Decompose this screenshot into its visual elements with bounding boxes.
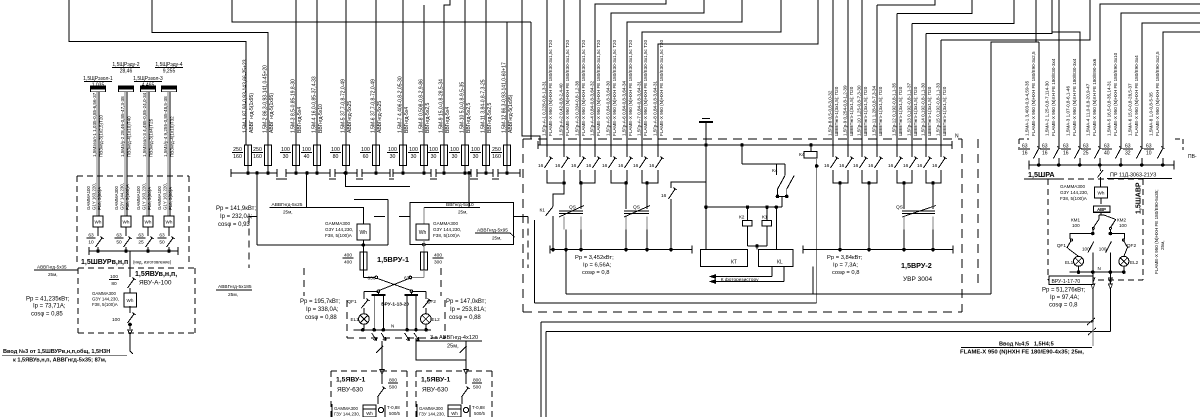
svg-text:GAMMA100: GAMMA100 [86,186,91,210]
svg-text:КТ: КТ [731,260,737,266]
svg-text:QS: QS [896,205,903,211]
svg-text:ШВВПнгз-1(3х1,5); П20: ШВВПнгз-1(3х1,5); П20 [942,86,947,136]
svg-text:32: 32 [1125,150,1131,156]
feeder 1,5Гр-А-5 with switch 16 [610,145,612,157]
svg-text:G3Y 144,230,: G3Y 144,230, [433,227,461,232]
svg-text:9,255: 9,255 [163,69,176,75]
svg-text:ВВГнгд-5х10: ВВГнгд-5х10 [318,104,324,133]
wire coils junction [748,245,768,247]
svg-text:ВРУ-1-13-20: ВРУ-1-13-20 [381,302,409,308]
svg-text:Рр = 51,276кВт;: Рр = 51,276кВт; [1042,288,1086,294]
svg-text:F16, 5(80)A: F16, 5(80)A [147,187,152,210]
svg-text:FLAME-X 950 (N)HXH FE 180/E30-: FLAME-X 950 (N)HXH FE 180/E30-3х1,5с Т20 [643,40,648,136]
wire supply bend to fuse column 1,5М-12 [232,0,507,145]
wire bend feeder Гр-А-4 [595,0,666,145]
svg-text:GAMMA300: GAMMA300 [433,221,458,226]
svg-text:16: 16 [649,163,655,169]
svg-text:1,5Мэзол-1 1,035-0,85-6,56-37: 1,5Мэзол-1 1,035-0,85-6,56-37 [92,92,97,157]
svg-text:30: 30 [390,154,396,160]
fuse 100/80 feeder 1,5М-5 [345,0,347,145]
svg-text:Wh: Wh [95,219,102,224]
bus N ВРУ-1 [354,329,431,331]
bus 1,5ВРУ-1 input busbar segments [231,172,277,174]
feeder 1,5Гр-15 with switch 16 [940,40,942,157]
feeder 1,5Гр-А-1 with switch 16 [546,0,548,145]
feeder 1,5Гр-А-4 with switch 16 [594,145,596,157]
boundary dashed line right [977,139,979,285]
svg-text:FLAME-X 950 (N)HXH FE 180/E30-: FLAME-X 950 (N)HXH FE 180/E30-3х1,5с Т20 [581,40,586,136]
fuse 100/30 feeder 1,5М-3 [295,0,297,145]
svg-text:1,5М-5 37,7-0,8-72,0-49: 1,5М-5 37,7-0,8-72,0-49 [341,79,347,133]
fuse 250/160 feeder 1,5М-2 [265,145,272,166]
bus N ВРУ-2 [538,144,952,146]
svg-text:Рр = 147,0кВт;: Рр = 147,0кВт; [446,299,486,305]
wire supply bend to fuse column 1,5М-1 [69,0,246,145]
wire meter 1 phase loop [256,173,258,245]
svg-text:Iр = 6,56А;: Iр = 6,56А; [583,263,612,269]
svg-text:16: 16 [903,163,909,169]
svg-text:Рр = 41,235кВт;: Рр = 41,235кВт; [26,297,70,303]
svg-text:F38, 5(100)A: F38, 5(100)A [325,233,353,238]
svg-text:1,5М-3 8,5-0,85-19,8-30: 1,5М-3 8,5-0,85-19,8-30 [291,79,297,133]
svg-text:1,5Гр-15 0,192-0,8-1,1-33: 1,5Гр-15 0,192-0,8-1,1-33 [936,83,941,136]
svg-text:16: 16 [932,163,938,169]
svg-text:25м,: 25м, [447,344,459,350]
svg-text:300: 300 [434,259,442,265]
svg-text:ЯВУ-630: ЯВУ-630 [422,387,448,394]
svg-text:1,5МА-1 3,403-0,9-4,59-35: 1,5МА-1 3,403-0,9-4,59-35 [1025,80,1030,136]
svg-text:1,5М-9 15,0-0,8-28,5-34: 1,5М-9 15,0-0,8-28,5-34 [439,79,445,133]
svg-text:FLAME-X 950 (N)HXH FE 180/E90-: FLAME-X 950 (N)HXH FE 180/E90-3х10 [1113,52,1118,136]
lamp EL2 [421,314,432,325]
contactor К4 contact [741,145,743,164]
svg-text:ПВЗнгд-3(1х2,5)Т20: ПВЗнгд-3(1х2,5)Т20 [98,115,103,157]
svg-text:1,5Гр-13 0,192-0,8-1,1-37: 1,5Гр-13 0,192-0,8-1,1-37 [907,83,912,136]
svg-text:60: 60 [363,154,369,160]
wire К4 coil to control line [816,158,818,303]
wire bend feeder Гр-13 [912,0,1014,24]
svg-text:28,46: 28,46 [120,69,133,75]
svg-text:1,5ЯВУ-1: 1,5ЯВУ-1 [421,377,450,384]
feeder 1,5Гр-А-6 with switch 16 [626,145,628,157]
svg-text:к 1,5ЯВУв,н,п, АВВГнгд-5х35; 8: к 1,5ЯВУв,н,п, АВВГнгд-5х35; 87м, [13,358,107,364]
wire control line 294 [566,293,991,295]
wire control line lower [534,302,816,304]
bus lower right ВРУ-2 [803,249,953,251]
svg-text:Ввод №4;5 1,5Н4;5: Ввод №4;5 1,5Н4;5 [999,342,1054,348]
output plug arrows ШАВР [1092,272,1094,284]
svg-text:GAMMA100: GAMMA100 [136,186,141,210]
relay coil К4 [809,143,813,147]
wire meter 2 phase loop [410,203,514,245]
svg-text:GAMMA300: GAMMA300 [1060,184,1085,189]
wire drop 1,5ЩРэду-4 [167,92,169,216]
svg-text:FLAME-X 950 (N)XH FE 180/E30-3: FLAME-X 950 (N)XH FE 180/E30-3х4 [1072,58,1077,136]
svg-text:80: 80 [333,154,339,160]
svg-text:Рр = 195,7кВт;: Рр = 195,7кВт; [300,299,340,305]
ground symbol [699,121,713,123]
svg-text:К4: К4 [772,168,778,174]
svg-text:Iр = 97,4А;: Iр = 97,4А; [1050,295,1080,301]
svg-text:16: 16 [1063,150,1069,156]
meter Wh 1,5ЩРэзол-3 [143,216,153,227]
svg-text:F16, 5(80)A: F16, 5(80)A [168,187,173,210]
svg-text:QF1: QF1 [1057,243,1067,249]
svg-text:16: 16 [868,163,874,169]
wire bend feeder Гр-А-6 [627,0,742,145]
svg-text:16: 16 [661,193,667,199]
svg-text:АВР: АВР [1097,207,1106,212]
svg-text:3 х АВВГнгд-4х120: 3 х АВВГнгд-4х120 [430,335,478,341]
junction bar left [377,293,379,296]
svg-text:АВВГнгд-5х25: АВВГнгд-5х25 [347,101,353,133]
svg-text:Wh: Wh [419,230,427,236]
wire ШРА col 2 [1058,0,1060,147]
wire pair merge А-3/А-4 [580,170,595,183]
panel box 1,5ВРУ-2 [523,138,962,140]
svg-text:500/5: 500/5 [474,411,486,416]
fuse 100/60 feeder 1,5М-6 [375,0,377,145]
svg-text:160: 160 [233,154,242,160]
svg-text:ПВ-: ПВ- [1188,154,1197,160]
svg-text:160: 160 [492,154,501,160]
svg-text:Iр = 232,0А;: Iр = 232,0А; [220,214,253,220]
fuse 250/160 feeder 1,5М-1 [245,145,252,166]
svg-text:40: 40 [1104,150,1110,156]
svg-text:EL2: EL2 [432,317,441,322]
svg-text:1,5МА-2 1,25-0,8-7,114-30: 1,5МА-2 1,25-0,8-7,114-30 [1045,81,1050,136]
svg-text:Wh: Wh [451,411,458,416]
transformer Т-0,88 [463,407,468,412]
feeder 1,5Гр-А-8 with switch 16 [657,145,659,157]
panel box 1,5ШАВР [1048,178,1143,180]
wire bend ШРА col 4 [1100,4,1200,147]
svg-text:16: 16 [538,163,544,169]
fuse 400/400 [360,252,367,270]
svg-text:30: 30 [473,154,479,160]
svg-text:ЯВУ-630: ЯВУ-630 [337,387,363,394]
svg-text:ГЗУ 144,230,: ГЗУ 144,230, [419,412,445,417]
wire pair merges right [833,170,848,183]
svg-text:АВВГ нгд-5(1х95): АВВГ нгд-5(1х95) [269,93,275,133]
wire bend feeder Гр-А-7 [642,0,781,145]
svg-text:N: N [1098,266,1101,271]
svg-text:FLAME-X 950 (N)XH FE 180/E90-3: FLAME-X 950 (N)XH FE 180/E90-3х6 [1092,58,1097,136]
svg-text:ЯВУ-А-100: ЯВУ-А-100 [139,280,172,287]
svg-text:1,5М-8 0,508-0,8-2,9-86: 1,5М-8 0,508-0,8-2,9-86 [419,79,425,133]
wire supply bend to fuse column 1,5М-2 [152,0,268,145]
meter Wh 1,5ЩРэду-4 [164,216,174,227]
wire bend ШРА col 5 [1121,13,1200,147]
lamp EL2 ШАВР [1119,256,1129,266]
svg-text:16: 16 [839,163,845,169]
junction bar right [404,294,418,296]
meter Wh №1 [357,224,370,240]
wire to QF2 [1110,234,1124,240]
wire supply to ВРУ-2 input [522,0,540,145]
svg-text:25м,: 25м, [1160,240,1165,250]
svg-text:16: 16 [917,163,923,169]
svg-text:FLAME-X 950 (N)HXH FE 180/E90-: FLAME-X 950 (N)HXH FE 180/E90-4х35; 25м, [960,350,1084,356]
relay КТ [701,250,748,267]
svg-text:F38, 5(100)A: F38, 5(100)A [125,184,130,210]
svg-text:Т-0,88: Т-0,88 [387,405,400,410]
device АВР [1094,206,1111,212]
svg-text:16: 16 [602,163,608,169]
svg-text:1,5Гр-А-1 0,228-0,8-1,3-31: 1,5Гр-А-1 0,228-0,8-1,3-31 [542,80,547,136]
wire bend ШРА col 1 [991,41,1039,43]
wire supply to ВРУ-2 corner [507,21,531,23]
svg-text:25: 25 [138,239,144,245]
svg-text:100: 100 [112,317,120,323]
svg-text:1,5Гр-14 0,192-0,8-1,1-30: 1,5Гр-14 0,192-0,8-1,1-30 [921,83,926,136]
svg-text:G3Y 144,230,: G3Y 144,230, [92,297,119,302]
svg-text:30: 30 [431,154,437,160]
svg-text:Рр = 3,452кВт;: Рр = 3,452кВт; [575,255,614,261]
svg-text:F38, 5(100)A: F38, 5(100)A [433,233,461,238]
svg-text:10: 10 [88,239,94,245]
svg-text:cosφ = 0,93: cosφ = 0,93 [218,222,250,228]
svg-text:Ввод №3 от 1,5ШВУРв,н,п,общ, 1: Ввод №3 от 1,5ШВУРв,н,п,общ, 1,5Н3Н [3,348,110,355]
svg-text:16: 16 [571,163,577,169]
svg-text:16: 16 [824,163,830,169]
svg-text:FLAME-X 950 (N)XH FE 180/E30-3: FLAME-X 950 (N)XH FE 180/E30-3х4 [1051,58,1056,136]
fuse 100/30 feeder 1,5М-10 [464,0,466,145]
svg-text:ШВВПнгз-1(3х1,5); П20: ШВВПнгз-1(3х1,5); П20 [878,86,883,136]
svg-text:160: 160 [253,154,262,160]
wire stub gray [1092,322,1094,346]
svg-text:КL: КL [777,260,783,266]
wire ШАВР input 1 [1092,289,1094,322]
svg-text:FLAME-X 950 (N)HXH FE 180/E30-: FLAME-X 950 (N)HXH FE 180/E30-3х1,5с Т20 [659,40,664,136]
svg-text:Iр = 338,0А;: Iр = 338,0А; [306,307,339,313]
fuse 100/30 feeder 1,5М-9 [444,0,450,145]
svg-text:cosφ = 0,85: cosφ = 0,85 [31,312,63,318]
svg-text:1,5Гр-А-6 0,84-0,8-3,64-34: 1,5Гр-А-6 0,84-0,8-3,64-34 [622,80,627,136]
svg-text:1,5ВРУ-1: 1,5ВРУ-1 [377,255,409,264]
svg-text:ШВВПнгз-1(3х1,5); П20: ШВВПнгз-1(3х1,5); П20 [898,86,903,136]
svg-text:Iр = 7,3А;: Iр = 7,3А; [833,263,858,269]
wire КL to control [812,267,814,295]
svg-text:FLAME-X 950 (N)HXH FE 180/E90-: FLAME-X 950 (N)HXH FE 180/E90-3х4 [1134,55,1139,136]
svg-text:500: 500 [389,384,397,390]
svg-text:1,5Гр-10 1,25-0,8-7,3-30: 1,5Гр-10 1,25-0,8-7,3-30 [857,85,862,136]
svg-text:25м,: 25м, [228,292,238,298]
switch 16 lighting control [671,182,706,188]
wire feed to ЯВУ-630 №2 [416,338,466,360]
svg-text:ВВГнгд-5х4: ВВГнгд-5х4 [297,107,303,133]
svg-text:1,5Гр-11 1,28-0,8-7,3-34: 1,5Гр-11 1,28-0,8-7,3-34 [872,85,877,136]
wire bend ШРА col 7 [1163,32,1200,147]
svg-text:QF1: QF1 [347,299,357,305]
svg-text:GAMMA300: GAMMA300 [92,291,116,296]
wire split to КМ1 КМ2 [1100,212,1102,215]
svg-text:F38, 5(100)A: F38, 5(100)A [1060,196,1088,201]
svg-text:ВВГнгд-5х2,5: ВВГнгд-5х2,5 [487,103,493,133]
svg-text:Wh: Wh [366,411,373,416]
svg-text:1,5М-11 3,84-0,8-7,3-25: 1,5М-11 3,84-0,8-7,3-25 [481,79,487,133]
svg-text:EL1: EL1 [1065,260,1074,265]
svg-text:50: 50 [116,239,122,245]
feeder 1,5Гр-14 with switch 16 [925,34,927,158]
feeder 1,5Гр-А-7 with switch 16 [641,145,643,157]
fuse 100/30 feeder 1,5М-8 [423,5,425,145]
svg-text:100: 100 [1119,223,1127,228]
wire bend ШРА col 6 [1142,23,1200,147]
svg-text:Wh: Wh [166,219,173,224]
svg-text:Wh: Wh [123,219,130,224]
panel bracket ШРА [1019,138,1029,140]
svg-text:ПВЗнгд-4(1х10)Т32: ПВЗнгд-4(1х10)Т32 [169,116,174,157]
svg-text:16: 16 [888,163,894,169]
wires to photoresistor [771,267,773,277]
svg-text:FLAME-X 950 (N)HXH FE 180/E30-: FLAME-X 950 (N)HXH FE 180/E30-3х1,5с Т20 [596,40,601,136]
wire bus to meter 2 [424,173,469,208]
svg-text:630: 630 [368,276,376,282]
svg-text:G3Y 144,230,: G3Y 144,230, [1060,190,1088,195]
feeder 1,5Гр-11 with switch 16 [876,5,878,157]
svg-text:100: 100 [1072,223,1080,228]
output plug arrows [372,333,377,341]
svg-text:QS: QS [633,205,640,211]
svg-text:АВВГнгд-5(1х95): АВВГнгд-5(1х95) [508,94,514,133]
fuse 100/30 feeder 1,5М-11 [485,0,487,145]
svg-text:ГЗУ 144,230,: ГЗУ 144,230, [334,412,360,417]
svg-text:АВВГ нгд-5(1х95): АВВГ нгд-5(1х95) [249,93,255,133]
svg-text:Wh: Wh [360,230,368,236]
svg-text:ШВВПнгз-1(3х1,5); П20: ШВВПнгз-1(3х1,5); П20 [927,86,932,136]
wire to QF1 [1070,234,1093,240]
svg-text:1,5М-10 5,0-0,8-9,5-35: 1,5М-10 5,0-0,8-9,5-35 [460,82,466,133]
svg-text:1,5М-2 86,3-0,93-141,0-45+20: 1,5М-2 86,3-0,93-141,0-45+20 [263,65,269,133]
svg-text:КМ1: КМ1 [1071,218,1081,223]
svg-text:1,5Гр-А-8 0,84-0,8-3,64-31: 1,5Гр-А-8 0,84-0,8-3,64-31 [653,80,658,136]
svg-text:FLAME-X 950 (N)HXH FE 180/E90-: FLAME-X 950 (N)HXH FE 180/E90-5х35; [1154,189,1159,274]
wire bend ШРА col 3 [1052,32,1080,147]
meter Wh 1,5ЩРэду-2 [121,216,131,227]
svg-text:cosφ = 0,88: cosφ = 0,88 [449,315,481,321]
bus 1,5ШВУР busbar [89,250,178,252]
svg-text:N: N [391,324,394,329]
feeder 1,5Гр-А-3 with switch 16 [579,0,581,145]
wires outputs to N bus [373,295,375,330]
svg-text:ВВГнгд-5х4: ВВГнгд-5х4 [445,107,451,133]
wire to ввод №3 [129,335,131,352]
svg-text:16: 16 [1022,150,1028,156]
svg-text:25м,: 25м, [492,236,502,241]
svg-text:ПВЗнгд-3(1х4)Т25: ПВЗнгд-3(1х4)Т25 [148,118,153,157]
relay control wiring [705,145,707,250]
svg-text:1,5ШВУРв,н,п: 1,5ШВУРв,н,п [81,259,128,266]
svg-text:Wh: Wh [145,219,152,224]
svg-text:F38, 5(100)A: F38, 5(100)A [92,302,118,307]
meter GAMMA300 ЯВУ-630 [416,404,418,417]
svg-text:УВР 3004: УВР 3004 [903,276,932,283]
svg-text:К2: К2 [739,215,745,221]
svg-text:1,5Гр-А-4 0,84-0,8-3,64-32: 1,5Гр-А-4 0,84-0,8-3,64-32 [590,80,595,136]
wire bend feeder Гр-А-8 [658,0,818,145]
svg-text:ВВГнгд-5х2,5: ВВГнгд-5х2,5 [466,103,472,133]
panel box 1,5ВРУ-1 [249,216,257,218]
svg-text:80: 80 [111,281,117,287]
bus junction dots [246,171,250,175]
svg-text:400: 400 [344,259,352,265]
svg-text:АВВГнгд-5х185: АВВГнгд-5х185 [218,284,252,290]
svg-text:Wh: Wh [1098,190,1105,195]
feeder 1,5Гр-12 with switch 16 [896,14,898,157]
svg-text:1,5Гр-А-7 0,84-0,8-3,64-31: 1,5Гр-А-7 0,84-0,8-3,64-31 [637,80,642,136]
svg-text:1,5Гр-9 0,254-0,8-1,2-39: 1,5Гр-9 0,254-0,8-1,2-39 [843,85,848,136]
wire bend feeder Гр-12 [897,0,972,14]
feeder 1,5Гр-А-2 with switch 16 [563,0,565,145]
svg-text:FLAME-X 950 (N)HXH FE 180/E30-: FLAME-X 950 (N)HXH FE 180/E30-3х1,5с Т20 [548,40,553,136]
meter Wh №2 [416,224,429,240]
svg-text:АВВГнгд-5х35: АВВГнгд-5х35 [37,265,67,270]
breaker 100 output [129,306,131,313]
svg-text:(инд, изготовление): (инд, изготовление) [133,260,172,265]
svg-text:1,5Мэ/у-2 28,46-0,85-47,3-38: 1,5Мэ/у-2 28,46-0,85-47,3-38 [120,96,125,157]
feeder 1,5Гр-10 with switch 16 [861,0,863,157]
wire pair merge А-5/А-6 [611,170,627,183]
fuse 250/160 feeder 1,5М-12 [504,145,511,166]
svg-text:GAMMA100: GAMMA100 [157,186,162,210]
svg-text:EL2: EL2 [1130,260,1139,265]
svg-text:50: 50 [159,239,165,245]
svg-text:ВВГнгд-5х4: ВВГнгд-5х4 [404,107,410,133]
wire bend feeder Гр-15 [941,0,1090,40]
svg-text:Iр = 253,81А;: Iр = 253,81А; [450,307,486,313]
svg-text:FLAME-X 950 (N)HXH FE 180/E30-: FLAME-X 950 (N)HXH FE 180/E30-3х1,5с Т20 [612,40,617,136]
svg-text:1,5М-1 87,93-0,93-143,66-25+2: 1,5М-1 87,93-0,93-143,66-25+23 [243,59,249,133]
svg-text:Iр = 73,71А;: Iр = 73,71А; [33,304,66,310]
svg-text:G1Y 163,220,: G1Y 163,220, [92,183,97,210]
svg-text:FLAME-X 950 (N)HXH FE 180/E30-: FLAME-X 950 (N)HXH FE 180/E30-3х1,5с Т20 [628,40,633,136]
wire bus to meter 1 [307,173,364,224]
meter Wh ШАВР [1095,187,1108,198]
svg-text:cosφ = 0,8: cosφ = 0,8 [832,270,859,276]
wire drop 1,5ЩРэду-2 [124,92,126,216]
svg-text:25м,: 25м, [48,272,58,277]
svg-text:1,5МА-8 1,0-0,8-5-35: 1,5МА-8 1,0-0,8-5-35 [1149,92,1154,136]
svg-text:ВВГнгд-5х2,5: ВВГнгд-5х2,5 [425,103,431,133]
svg-text:16: 16 [586,163,592,169]
svg-text:Рр = 141,9кВт;: Рр = 141,9кВт; [216,206,256,212]
svg-text:Т-0,88: Т-0,88 [472,405,485,410]
svg-text:G3Y 144,230,: G3Y 144,230, [325,227,353,232]
fuse 100/30 feeder 1,5М-7 [402,0,404,145]
svg-text:500: 500 [473,384,481,390]
svg-text:16: 16 [1042,150,1048,156]
relay КL [758,250,793,267]
svg-text:25: 25 [1083,150,1089,156]
wire pair merge А-1/А-2 [547,170,564,183]
bus N ШАВР [1069,271,1125,273]
svg-text:30: 30 [283,154,289,160]
svg-text:30: 30 [411,154,417,160]
svg-text:1,5МА-4 11,0-0,8-20,9-47: 1,5МА-4 11,0-0,8-20,9-47 [1086,83,1091,136]
svg-text:ВРУ-1-17-70: ВРУ-1-17-70 [1052,279,1081,285]
svg-text:1,5Мэ/у-4 9,255-0,85-48,5-38: 1,5Мэ/у-4 9,255-0,85-48,5-38 [163,96,168,157]
panel box 1,5ЯВУв,н,п [78,267,195,269]
wire bend feeder Гр-11 [877,0,935,5]
panel box 1,5ШВУРв,н,п [77,175,189,177]
wire ввод №5 line [546,330,1110,332]
svg-text:1,5Гр-8 0,5-0,8-3,0-32: 1,5Гр-8 0,5-0,8-3,0-32 [828,90,833,136]
svg-text:КМ2: КМ2 [1117,218,1127,223]
wire ввод №4 line [541,321,1093,323]
svg-text:N: N [955,134,959,140]
svg-text:25м,: 25м, [458,210,468,215]
